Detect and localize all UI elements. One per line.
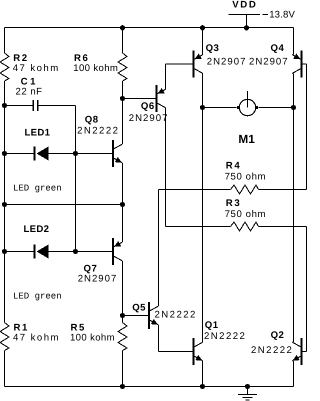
- transistor Q4: [301, 51, 303, 78]
- node LED2-C1 junction: [73, 249, 78, 254]
- node LED2 left junction: [2, 249, 7, 254]
- wire Q1 emitter to bottom rail: [202, 361, 204, 387]
- resistor R1: [0, 323, 9, 351]
- svg-text:Q3: Q3: [206, 43, 220, 54]
- wire Q4 base to base rail: [302, 63, 307, 65]
- node bottom-Q1 junction: [200, 384, 205, 389]
- svg-text:Q8: Q8: [85, 114, 99, 125]
- svg-text:Q1: Q1: [205, 320, 219, 331]
- wire Q2 collector up right rail: [293, 108, 295, 343]
- svg-text:LED2: LED2: [24, 224, 50, 235]
- wire top rail: [5, 27, 294, 29]
- transistor Q8: [112, 140, 114, 167]
- resistor R5: [118, 323, 127, 351]
- transistor Q6: [156, 85, 158, 112]
- svg-text:750 ohm: 750 ohm: [225, 172, 267, 183]
- svg-text:2N2907: 2N2907: [129, 113, 169, 124]
- svg-text:R4: R4: [226, 160, 241, 171]
- svg-text:Q2: Q2: [271, 330, 285, 341]
- LED1: [5, 153, 34, 155]
- wire Q6 base: [123, 98, 157, 100]
- resistor R2: [0, 53, 9, 81]
- svg-text:750 ohm: 750 ohm: [225, 209, 267, 220]
- svg-text:LED green: LED green: [13, 184, 62, 194]
- resistor R6: [122, 28, 124, 54]
- resistor R4: [159, 189, 231, 191]
- wire Q5 base: [123, 315, 150, 317]
- transistor Q1: [193, 338, 195, 365]
- motor M1: [203, 107, 237, 109]
- wire C1 to LED1 vertical: [75, 106, 77, 252]
- svg-text:47 kohm: 47 kohm: [13, 63, 60, 74]
- node mid-right junction: [120, 202, 125, 207]
- power VDD: [229, 14, 261, 16]
- node bottom-R5 junction: [120, 384, 125, 389]
- svg-text:2N2907: 2N2907: [207, 56, 247, 67]
- wire Q4 collector down right rail: [293, 74, 295, 343]
- wire left rail: [4, 28, 6, 54]
- svg-text:R3: R3: [226, 198, 241, 209]
- node R6/Q6-base junction: [120, 96, 125, 101]
- svg-text:M1: M1: [238, 132, 255, 146]
- svg-text:47 kohm: 47 kohm: [13, 332, 60, 343]
- node bottom-ground junction: [245, 384, 250, 389]
- svg-text:2N2222: 2N2222: [204, 331, 246, 342]
- node mid-left junction: [2, 202, 7, 207]
- svg-text:2N2222: 2N2222: [251, 345, 293, 356]
- svg-text:2N2222: 2N2222: [155, 310, 197, 321]
- wire Q2 emitter to bottom rail: [293, 361, 295, 387]
- transistor Q2: [301, 338, 303, 365]
- LED2: [5, 251, 34, 253]
- node top-Q3 junction: [200, 25, 205, 30]
- transistor Q3: [193, 51, 195, 78]
- svg-text:2N2907: 2N2907: [78, 273, 118, 284]
- node LED1-C1 junction: [73, 151, 78, 156]
- node Q5 base junction: [120, 313, 125, 318]
- svg-text:LED1: LED1: [25, 128, 51, 139]
- svg-text:LED green: LED green: [13, 292, 62, 302]
- wire R3 right to Q2 base: [306, 227, 308, 352]
- svg-text:22 nF: 22 nF: [16, 87, 43, 98]
- svg-text:100 kohm: 100 kohm: [73, 63, 118, 74]
- wire Q8 emitter down to mid wire: [122, 163, 124, 242]
- wire Q3 emitter to top rail: [202, 28, 204, 55]
- wire Q5 emitter down to Q1 base: [158, 325, 160, 352]
- resistor R3: [166, 226, 231, 228]
- node LED1 left junction: [2, 151, 7, 156]
- transistor Q7: [112, 238, 114, 265]
- svg-text:Q5: Q5: [132, 302, 146, 313]
- svg-text:100 kohm: 100 kohm: [70, 332, 115, 343]
- wire Q6 emitter up to Q3 base: [165, 64, 167, 89]
- svg-text:Q4: Q4: [271, 43, 285, 54]
- wire Q3 collector to motor (left power rail): [202, 74, 204, 343]
- node top-VDD junction: [244, 25, 249, 30]
- svg-text:VDD: VDD: [232, 0, 257, 11]
- wire Q5 collector up to R4: [158, 190, 160, 307]
- transistor Q5: [148, 302, 150, 329]
- node motor right junction: [291, 105, 296, 110]
- ground: [247, 387, 249, 395]
- svg-text:Q6: Q6: [141, 101, 155, 112]
- wire R6 bottom to Q8 collector: [122, 81, 124, 144]
- wire Q6 collector down to R3: [165, 108, 167, 227]
- node top-R6 junction: [120, 25, 125, 30]
- wire Q7 collector down to R5: [122, 261, 124, 323]
- node C1-left rail junction: [2, 103, 7, 108]
- wire bottom rail: [5, 386, 294, 388]
- node motor left junction: [200, 105, 205, 110]
- wire mid (left rail to Q8 emitter): [5, 204, 123, 206]
- wire Q4 emitter from top rail corner: [293, 28, 295, 55]
- svg-text:2N2222: 2N2222: [77, 125, 119, 136]
- svg-text:13.8V: 13.8V: [269, 10, 295, 21]
- svg-text:2N2907: 2N2907: [249, 56, 289, 67]
- capacitor C1: [5, 105, 33, 107]
